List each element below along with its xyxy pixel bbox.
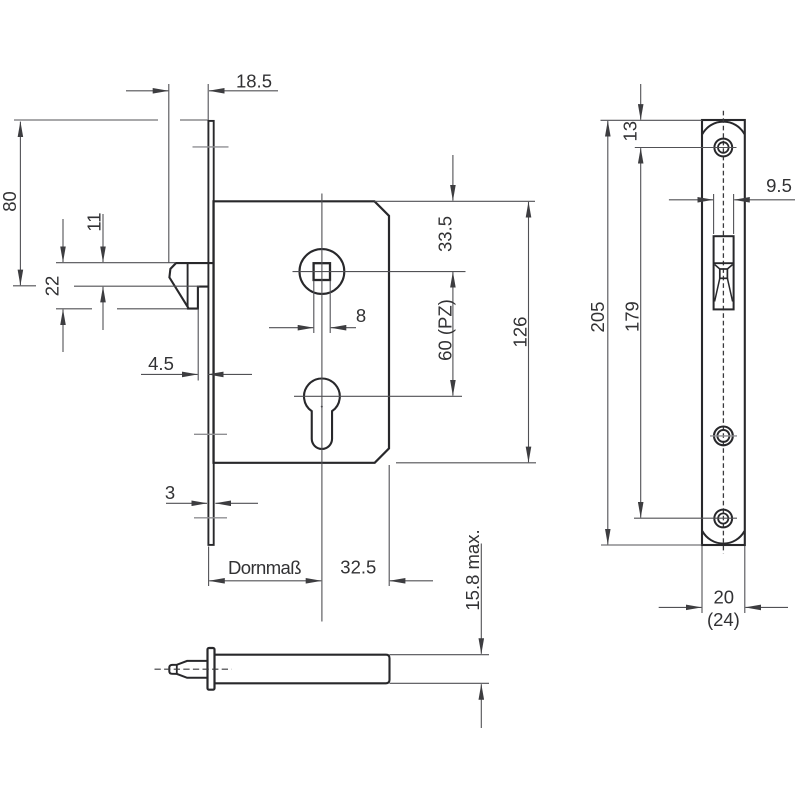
latch center extension line <box>13 285 200 287</box>
svg-text:179: 179 <box>622 301 643 332</box>
bolt tip face line <box>176 665 178 674</box>
dimension 20 / (24) <box>659 606 702 608</box>
svg-text:3: 3 <box>165 482 175 503</box>
latch lower diagonals <box>715 278 733 301</box>
follower circle <box>300 249 345 294</box>
bolt centerline <box>155 668 232 670</box>
faceplate top arc <box>702 122 744 135</box>
svg-text:4.5: 4.5 <box>148 353 174 374</box>
screw hole middle <box>714 427 733 446</box>
svg-text:60 (PZ): 60 (PZ) <box>435 299 456 361</box>
svg-text:22: 22 <box>42 276 63 297</box>
svg-text:80: 80 <box>0 191 20 212</box>
screw middle center tick <box>710 435 737 437</box>
latch top extension line <box>56 262 175 264</box>
latch bevel upper diagonals <box>715 265 733 270</box>
faceplate edge view (left) <box>208 121 213 545</box>
dimension 4.5 <box>141 373 198 375</box>
dimension 13 <box>640 84 642 120</box>
screw position tick top <box>193 146 229 148</box>
bolt side view <box>215 655 390 684</box>
dimension 8 <box>313 281 315 334</box>
dimension 9.5 <box>669 199 713 201</box>
latch bottom extension line <box>56 308 187 310</box>
svg-text:11: 11 <box>84 212 105 231</box>
svg-text:Dornmaß: Dornmaß <box>228 557 302 578</box>
dimension 22 <box>62 219 64 262</box>
faceplate front view (right) <box>702 120 745 545</box>
follower square spindle hole <box>314 263 330 280</box>
faceplate section at bolt <box>208 648 215 690</box>
dimension 18.5 <box>126 90 168 92</box>
bottom screw extension <box>634 517 737 519</box>
svg-text:18.5: 18.5 <box>236 71 272 92</box>
svg-text:8: 8 <box>356 305 366 326</box>
dimension 15.8 max <box>480 544 482 654</box>
svg-text:13: 13 <box>620 121 641 142</box>
svg-text:(24): (24) <box>707 609 740 630</box>
dimension 11 <box>102 214 104 262</box>
cylinder center extension line <box>294 395 462 397</box>
latch upper part line <box>714 262 734 264</box>
plate top extension line <box>14 119 208 121</box>
cylinder centerline <box>321 194 323 622</box>
plate bottom extension (right view) <box>601 544 702 546</box>
svg-text:32.5: 32.5 <box>340 557 376 578</box>
latch slot front view <box>714 236 734 309</box>
body top extension line <box>375 200 536 202</box>
top screw extension <box>635 147 737 149</box>
latch hook (edge view) <box>169 263 214 309</box>
dimension 33.5 <box>452 155 454 201</box>
latch inner edge <box>187 263 189 307</box>
dimension Dornmass 32.5 <box>209 580 321 582</box>
euro profile cylinder hole <box>304 378 340 448</box>
dimension 179 <box>640 148 642 517</box>
lock case body <box>214 201 390 463</box>
dimension 126 <box>528 202 530 462</box>
svg-text:126: 126 <box>510 317 531 348</box>
svg-text:33.5: 33.5 <box>435 216 456 252</box>
dimension 60 (PZ) <box>452 272 454 396</box>
latch small square <box>720 269 728 278</box>
bolt tip <box>169 661 207 678</box>
dimension 3 <box>166 502 207 504</box>
body bottom extension line <box>396 462 536 464</box>
plate top extension (right view) <box>601 119 703 121</box>
screw position tick bottom <box>194 517 227 519</box>
svg-text:20: 20 <box>714 587 735 608</box>
faceplate bottom arc <box>702 531 744 544</box>
svg-text:15.8 max.: 15.8 max. <box>462 529 483 610</box>
screw hole bottom <box>714 510 732 528</box>
screw hole top <box>714 139 732 157</box>
svg-text:9.5: 9.5 <box>766 175 792 196</box>
follower center extension line <box>293 271 466 273</box>
faceplate centerline dashed <box>722 111 724 554</box>
dimension 80 <box>19 122 21 286</box>
screw position tick middle <box>194 433 227 435</box>
dimension 205 <box>607 121 609 545</box>
svg-text:205: 205 <box>587 302 608 333</box>
